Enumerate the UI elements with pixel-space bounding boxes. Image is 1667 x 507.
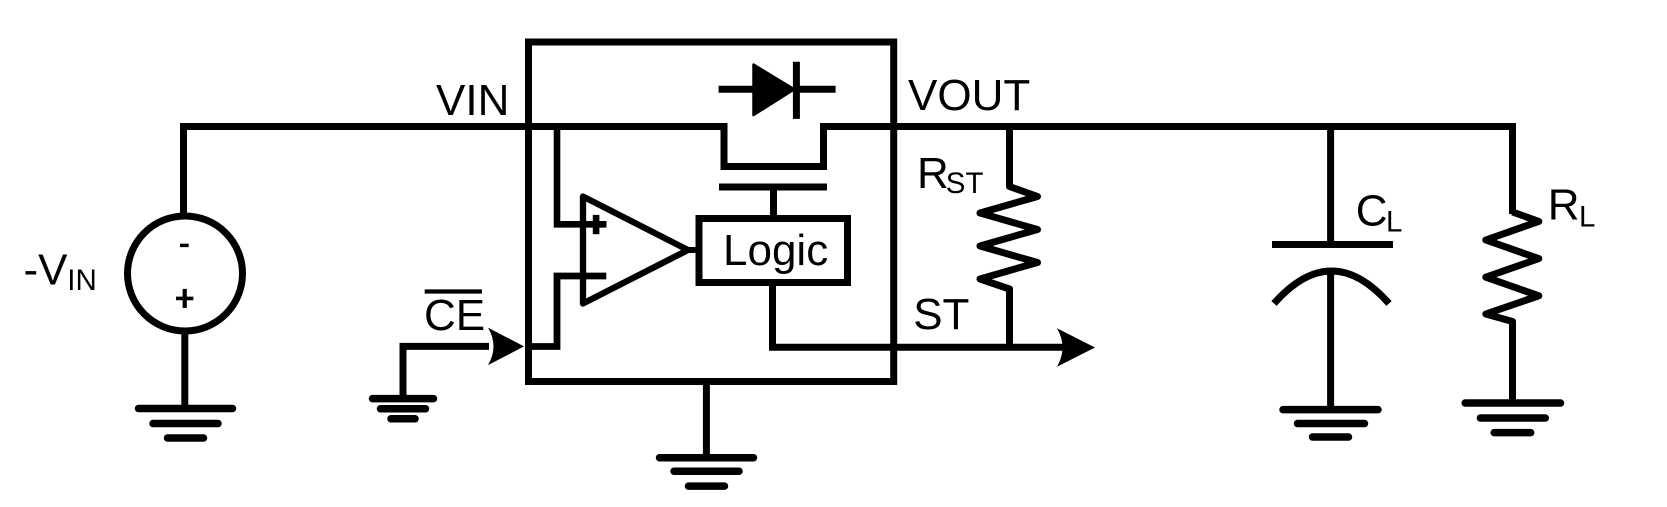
svg-text:-V: -V: [24, 245, 69, 294]
capacitor CL curved bottom plate: [1274, 271, 1389, 304]
ground (CL): [1283, 410, 1378, 437]
plus symbol at comparator input: [593, 215, 600, 234]
svg-text:CE: CE: [424, 291, 485, 340]
ground (CE): [373, 399, 434, 419]
ST output arrowhead: [1057, 328, 1095, 366]
wire: gate to Logic: [770, 187, 777, 218]
wire: VIN rail from source to MOSFET: [184, 127, 725, 219]
wire: comparator output to Logic: [684, 247, 699, 253]
svg-text:IN: IN: [67, 264, 97, 297]
voltage source V1 (-VIN): [128, 216, 243, 331]
minus sign inside source: [180, 244, 189, 248]
capacitor CL top plate stem: [1327, 123, 1334, 245]
ground (IC box): [660, 458, 754, 486]
svg-text:R: R: [1548, 181, 1580, 230]
transistor Q1 gate bar: [719, 184, 827, 191]
resistor RL: [1486, 212, 1539, 403]
wire: IC box ground stem: [703, 382, 710, 458]
diode D1 triangle: [754, 65, 795, 116]
wire: comparator + input from rail: [557, 123, 607, 224]
wire: comparator - input to CE node: [525, 276, 606, 347]
resistor RST: [980, 123, 1038, 351]
wire: Logic to ST line: [773, 281, 1067, 347]
CE input arrowhead: [488, 328, 524, 366]
svg-text:C: C: [1356, 187, 1388, 236]
diode D1 cathode lead: [796, 86, 835, 93]
capacitor CL top plate: [1272, 241, 1393, 248]
svg-text:R: R: [917, 149, 949, 198]
svg-text:VOUT: VOUT: [908, 71, 1030, 120]
svg-text:VIN: VIN: [436, 76, 509, 125]
wire: CE input: [403, 346, 489, 398]
ground (below source): [139, 409, 233, 439]
Logic block: [699, 219, 848, 283]
transistor Q1 (pass MOSFET) source/drain path: [724, 123, 824, 167]
plus sign inside source: [176, 297, 193, 301]
IC box U1: [529, 42, 894, 382]
wire: source bottom stem: [181, 329, 188, 409]
capacitor CL bottom stem: [1327, 271, 1334, 410]
svg-text:ST: ST: [913, 290, 969, 339]
svg-text:ST: ST: [946, 167, 984, 200]
svg-text:L: L: [1579, 200, 1595, 233]
svg-text:L: L: [1386, 205, 1402, 238]
wire: VOUT rail from MOSFET to RL: [824, 127, 1513, 215]
ground (RL): [1465, 403, 1560, 433]
diode D1 cathode bar: [793, 62, 800, 119]
svg-text:Logic: Logic: [723, 226, 828, 275]
diode D1 (body diode) anode lead: [719, 86, 754, 93]
op-amp comparator: [583, 197, 688, 304]
